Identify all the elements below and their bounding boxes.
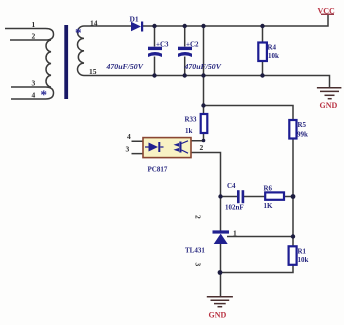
- svg-text:+C3: +C3: [156, 41, 169, 49]
- svg-text:3: 3: [126, 145, 130, 154]
- svg-text:1k: 1k: [185, 127, 193, 135]
- svg-text:R6: R6: [264, 185, 273, 193]
- svg-text:R5: R5: [298, 121, 307, 129]
- svg-text:R4: R4: [268, 44, 277, 52]
- svg-text:102nF: 102nF: [225, 204, 244, 212]
- svg-text:470uF/50V: 470uF/50V: [106, 62, 144, 71]
- svg-text:14: 14: [90, 19, 98, 28]
- svg-text:3: 3: [32, 79, 36, 88]
- svg-text:470uF/50V: 470uF/50V: [184, 62, 222, 71]
- svg-text:C4: C4: [227, 182, 236, 190]
- svg-text:1K: 1K: [264, 202, 274, 210]
- svg-text:4: 4: [32, 91, 36, 100]
- svg-text:R33: R33: [185, 116, 198, 124]
- svg-text:*: *: [75, 25, 82, 40]
- svg-text:PC817: PC817: [148, 166, 168, 174]
- svg-text:R1: R1: [298, 248, 307, 256]
- svg-text:2: 2: [194, 215, 203, 219]
- svg-text:2: 2: [200, 143, 204, 152]
- svg-text:10k: 10k: [268, 52, 279, 60]
- svg-text:99k: 99k: [297, 131, 308, 139]
- svg-text:+C2: +C2: [186, 41, 199, 49]
- svg-text:10k: 10k: [298, 256, 309, 264]
- svg-text:15: 15: [89, 67, 97, 76]
- svg-text:TL431: TL431: [185, 247, 205, 255]
- svg-text:*: *: [41, 87, 48, 102]
- svg-text:GND: GND: [209, 311, 227, 320]
- svg-text:3: 3: [194, 263, 203, 267]
- svg-text:4: 4: [127, 132, 131, 141]
- svg-text:D1: D1: [130, 15, 139, 24]
- svg-text:1: 1: [233, 229, 237, 238]
- svg-text:2: 2: [32, 32, 36, 41]
- svg-text:1: 1: [32, 20, 36, 29]
- svg-text:GND: GND: [320, 101, 338, 110]
